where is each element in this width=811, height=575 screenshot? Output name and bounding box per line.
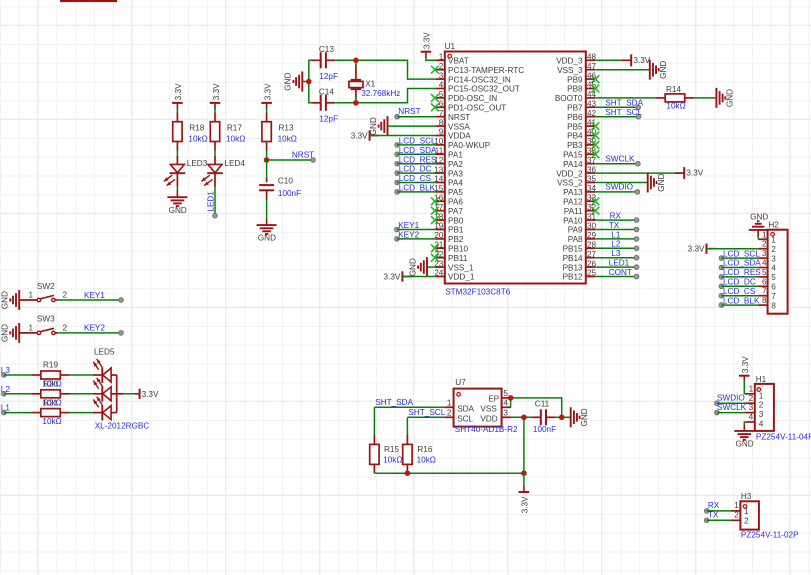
U1 pin 6 PD1-OSC_OUT (435, 106, 444, 108)
svg-text:GND: GND (169, 206, 187, 215)
net label SWDIO at U1 pin34 (595, 191, 637, 193)
U1 pin 3 PC14-OSC32_IN (435, 78, 444, 80)
svg-text:PA11: PA11 (564, 207, 583, 216)
svg-text:H1: H1 (756, 375, 767, 384)
svg-text:10kΩ: 10kΩ (42, 417, 61, 426)
wire 3.3V to R13 (266, 107, 268, 112)
svg-text:XL-2012RGBC: XL-2012RGBC (95, 421, 150, 430)
resistor R20 10k (31, 393, 40, 395)
power 3.3V at U1 pin24 VDD_1 (402, 276, 411, 278)
svg-text:10kΩ: 10kΩ (226, 134, 245, 143)
svg-text:5: 5 (503, 389, 508, 398)
wire R13 to node NRST (266, 150, 268, 160)
net label LCD_DC wire (395, 171, 400, 176)
svg-text:U7: U7 (455, 378, 466, 387)
svg-text:PB8: PB8 (567, 85, 583, 94)
svg-text:SWDIO: SWDIO (717, 393, 745, 402)
svg-text:PA4: PA4 (448, 179, 463, 188)
svg-text:PB13: PB13 (563, 263, 583, 272)
svg-text:3.3V: 3.3V (263, 83, 272, 100)
ground GND left of crystal (303, 81, 309, 83)
svg-text:PB3: PB3 (567, 141, 583, 150)
svg-text:RX: RX (708, 501, 720, 510)
capacitor C10 100nF (266, 178, 268, 183)
svg-text:5: 5 (771, 273, 776, 282)
svg-text:7: 7 (771, 292, 776, 301)
U1 pin 4 PC15-OSC32_OUT (435, 88, 444, 90)
capacitor C11 100nF (531, 416, 540, 418)
svg-text:1: 1 (749, 384, 754, 393)
U7 pin 5 EP (502, 397, 511, 399)
svg-text:4: 4 (759, 420, 764, 429)
svg-text:44: 44 (587, 90, 597, 99)
svg-text:2: 2 (734, 511, 739, 520)
svg-text:100nF: 100nF (278, 189, 301, 198)
net label LCD_SCL wire (395, 143, 400, 148)
svg-text:PA2: PA2 (448, 160, 463, 169)
svg-text:GND: GND (258, 234, 276, 243)
wire LED4 cathode net LED1 (214, 173, 216, 186)
wire left vertical C13-C14 (309, 60, 312, 103)
svg-text:27: 27 (587, 250, 597, 259)
svg-text:PA12: PA12 (563, 198, 583, 207)
svg-text:VDD_1: VDD_1 (448, 273, 475, 282)
svg-text:47: 47 (587, 62, 597, 71)
svg-text:4: 4 (503, 399, 508, 408)
svg-text:GND: GND (284, 72, 293, 90)
svg-text:TX: TX (609, 221, 620, 230)
svg-text:10kΩ: 10kΩ (666, 102, 685, 111)
switch SW3 (19, 332, 37, 334)
LED element L3 of LED5 (93, 374, 102, 376)
connector H2 body (768, 230, 788, 314)
svg-text:LCD_SCL: LCD_SCL (723, 249, 760, 258)
svg-text:LCD_BLK: LCD_BLK (723, 296, 760, 305)
svg-text:VDD_2: VDD_2 (556, 169, 583, 178)
H1 pin 2 (745, 402, 754, 404)
U1 pin 23 VSS_1 (435, 266, 444, 268)
U1 pin 18 PB0 (435, 219, 444, 221)
H2 pin 6 (758, 285, 767, 287)
net label L1 at U1 pin29 (595, 238, 636, 240)
svg-text:2: 2 (63, 323, 68, 332)
svg-text:28: 28 (587, 241, 597, 250)
svg-text:PB2: PB2 (448, 235, 464, 244)
H2 pin-1 marker ring (771, 232, 775, 236)
U1 pin 46 PB9 (586, 78, 595, 80)
svg-text:LED1: LED1 (206, 191, 215, 212)
svg-text:KEY1: KEY1 (84, 291, 105, 300)
svg-text:PC14-OSC32_IN: PC14-OSC32_IN (448, 75, 511, 84)
U1 pin 26 PB13 (586, 266, 595, 268)
wire L2 to resistor (4, 393, 32, 395)
ground GND at U1 pin47 VSS_3 (595, 69, 650, 71)
svg-text:RX: RX (610, 212, 622, 221)
svg-text:C10: C10 (278, 176, 293, 185)
capacitor C13 (311, 59, 320, 61)
crystal X1 32.768kHz (355, 65, 357, 80)
LED element L1 of LED5 (93, 412, 102, 414)
U7 pin 4 VSS (502, 406, 511, 408)
net label KEY1 at U1 pin19 (395, 227, 400, 232)
H3 pin-1 marker ring (743, 505, 747, 509)
svg-text:VSSA: VSSA (448, 122, 470, 131)
wire GND to pin8 (388, 125, 436, 127)
svg-text:KEY1: KEY1 (398, 221, 419, 230)
svg-text:GND: GND (750, 213, 768, 222)
svg-text:SHT_SCL: SHT_SCL (605, 108, 642, 117)
svg-text:LCD_RES: LCD_RES (399, 155, 437, 164)
svg-text:3.3V: 3.3V (423, 32, 432, 49)
svg-text:PA1: PA1 (448, 151, 463, 160)
net label SHT_SDA at U1 pin43 (595, 106, 638, 108)
svg-text:3.3V: 3.3V (521, 496, 530, 513)
net label LCD_BLK wire (395, 190, 400, 195)
svg-text:LED3: LED3 (187, 159, 208, 168)
svg-text:20: 20 (434, 231, 444, 240)
svg-text:2: 2 (762, 240, 767, 249)
svg-text:4: 4 (762, 259, 767, 268)
net label L3 at U1 pin27 (595, 257, 636, 259)
resistor R16 10k pullup (406, 417, 408, 435)
svg-text:SWDIO: SWDIO (605, 183, 633, 192)
svg-text:LED1: LED1 (609, 259, 630, 268)
wire resistor to LED L1 (70, 412, 95, 414)
svg-text:25: 25 (587, 269, 597, 278)
svg-text:10kΩ: 10kΩ (383, 455, 402, 464)
svg-text:3.3V: 3.3V (174, 83, 183, 100)
wire pullup bottoms to 3.3V node (374, 472, 524, 474)
node junction crystal top (353, 58, 359, 64)
U7 pin 1 SDA (444, 406, 453, 408)
svg-text:R16: R16 (417, 445, 432, 454)
net label L2 at U1 pin28 (595, 247, 636, 249)
svg-text:VSS: VSS (480, 404, 497, 413)
svg-text:PB7: PB7 (567, 104, 583, 113)
svg-text:43: 43 (587, 100, 597, 109)
wire crystal bottom stub (355, 96, 357, 103)
U1 pin 40 PB4 (586, 135, 595, 137)
svg-text:LCD_DC: LCD_DC (399, 165, 432, 174)
svg-text:34: 34 (587, 184, 597, 193)
svg-text:3.3V: 3.3V (384, 272, 401, 281)
net label RX at U1 pin31 (595, 219, 636, 221)
svg-text:H2: H2 (768, 220, 779, 229)
svg-text:SWCLK: SWCLK (717, 403, 747, 412)
U1 pin 5 PD0-OSC_IN (435, 97, 444, 99)
svg-text:2: 2 (744, 516, 749, 525)
wire L3 to resistor (4, 374, 32, 376)
svg-text:3: 3 (762, 249, 767, 258)
LED LED4 (214, 156, 216, 164)
svg-text:SHT40-AD1B-R2: SHT40-AD1B-R2 (455, 425, 518, 434)
node junction 3.3V branch (521, 470, 527, 476)
svg-text:4: 4 (771, 264, 776, 273)
svg-text:LCD_SCL: LCD_SCL (399, 137, 436, 146)
net label LED1 at U1 pin26 (595, 266, 636, 268)
svg-text:3: 3 (771, 254, 776, 263)
svg-text:X1: X1 (365, 79, 375, 88)
svg-text:2: 2 (439, 62, 444, 71)
svg-text:13: 13 (434, 165, 444, 174)
svg-text:LCD_CS: LCD_CS (723, 287, 756, 296)
svg-text:LCD_RES: LCD_RES (723, 268, 761, 277)
H1 pin 3 (745, 412, 754, 414)
svg-text:PB9: PB9 (567, 75, 583, 84)
node junction C11 right (559, 415, 565, 421)
svg-text:R15: R15 (384, 445, 399, 454)
svg-text:KEY2: KEY2 (84, 324, 105, 333)
net label LCD_RES at H2 pin5 (719, 275, 724, 280)
wire 3.3V to H1 pin1 (744, 381, 745, 394)
svg-text:29: 29 (587, 231, 597, 240)
capacitor C14 (311, 102, 320, 104)
U1 pin 44 BOOT0 (586, 97, 595, 99)
svg-text:7: 7 (762, 287, 767, 296)
svg-text:6: 6 (439, 100, 444, 109)
wire VSS up to EP node (510, 398, 512, 407)
svg-text:NRST: NRST (398, 107, 420, 116)
svg-text:R14: R14 (666, 85, 681, 94)
ground GND at U1 pin35 VSS_2 (595, 182, 648, 184)
wire L1 to resistor (4, 412, 32, 414)
net label LCD_CS wire (395, 180, 400, 185)
svg-text:LED4: LED4 (224, 159, 245, 168)
svg-text:GND: GND (580, 408, 589, 426)
H3 pin 1 (731, 510, 740, 512)
ground GND below H1 (743, 425, 745, 431)
svg-text:PA7: PA7 (448, 207, 463, 216)
svg-text:NRST: NRST (448, 113, 470, 122)
U7 pin-1 marker ring (457, 393, 461, 397)
wire U7 EP/VSS to GND net (511, 398, 562, 417)
svg-text:3.3V: 3.3V (741, 356, 750, 373)
node junction NRST (264, 157, 270, 163)
svg-text:VSS_2: VSS_2 (557, 179, 583, 188)
power 3.3V above R18 (172, 102, 183, 104)
svg-text:PB4: PB4 (567, 132, 583, 141)
svg-text:9: 9 (439, 128, 444, 137)
svg-text:10kΩ: 10kΩ (278, 134, 297, 143)
svg-text:PA9: PA9 (568, 226, 583, 235)
power 3.3V at U1 pin9 VDDA (370, 135, 379, 137)
svg-text:PA14: PA14 (563, 160, 583, 169)
power 3.3V right of LED5 (135, 393, 140, 395)
power flag 3.3V above U1 pin 1 (421, 51, 432, 53)
svg-text:PB11: PB11 (448, 254, 468, 263)
wire C13 to crystal top to U1 pin3 (335, 60, 435, 79)
U1 pin 28 PB15 (586, 247, 595, 249)
svg-text:L1: L1 (611, 230, 621, 239)
svg-text:SDA: SDA (457, 404, 474, 413)
svg-text:1: 1 (447, 399, 452, 408)
wire R17 to LED4 (214, 150, 216, 158)
U1 pin 19 PB1 (435, 229, 444, 231)
svg-text:C11: C11 (535, 400, 550, 409)
svg-text:12pF: 12pF (319, 114, 338, 123)
U1 pin 14 PA4 (435, 182, 444, 184)
U1 pin 15 PA5 (435, 191, 444, 193)
svg-text:10kΩ: 10kΩ (417, 455, 436, 464)
svg-text:PA15: PA15 (563, 151, 583, 160)
svg-text:3.3V: 3.3V (351, 131, 368, 140)
svg-text:VSS_1: VSS_1 (448, 263, 474, 272)
svg-text:3: 3 (503, 409, 508, 418)
net label LCD_SDA wire (395, 152, 400, 157)
svg-text:LCD_SDA: LCD_SDA (399, 146, 437, 155)
svg-text:C14: C14 (319, 87, 334, 96)
svg-text:1: 1 (771, 236, 776, 245)
net label SHT_SCL at U1 pin42 (595, 116, 638, 118)
power 3.3V at H2 pin2 (707, 248, 716, 250)
U1 pin 7 NRST (435, 116, 444, 118)
H2 pin 1 (758, 238, 767, 240)
node junction GND tap (306, 79, 312, 85)
U1 pin 12 PA2 (435, 163, 444, 165)
svg-text:3: 3 (439, 71, 444, 80)
U1 pin 31 PA10 (586, 219, 595, 221)
U1 pin 25 PB12 (586, 276, 595, 278)
U1 pin 1 VBAT (435, 59, 444, 61)
svg-text:1: 1 (439, 53, 444, 62)
svg-text:STM32F103C8T6: STM32F103C8T6 (445, 287, 511, 296)
svg-text:KEY2: KEY2 (398, 231, 419, 240)
svg-text:35: 35 (587, 175, 597, 184)
svg-text:VDD: VDD (480, 414, 497, 423)
svg-text:GND: GND (735, 440, 753, 449)
H2 pin 5 (758, 276, 767, 278)
U1 pin 11 PA1 (435, 153, 444, 155)
H2 pin 3 (758, 257, 767, 259)
node junction crystal bottom (353, 100, 359, 106)
U1 pin 13 PA3 (435, 172, 444, 174)
ground GND above H2 pin1 (757, 232, 759, 240)
svg-text:SHT_SDA: SHT_SDA (375, 398, 413, 407)
U1 pin 35 VSS_2 (586, 182, 595, 184)
svg-text:LCD_BLK: LCD_BLK (399, 184, 436, 193)
wire VDD node down (523, 417, 525, 473)
svg-text:37: 37 (587, 156, 597, 165)
H2 pin 4 (758, 267, 767, 269)
U1 pin 33 PA12 (586, 200, 595, 202)
power 3.3V at U1 pin48 VDD_3 (595, 59, 631, 61)
svg-text:GND: GND (657, 173, 666, 191)
svg-text:PA6: PA6 (448, 198, 463, 207)
svg-text:15: 15 (434, 184, 444, 193)
U1 pin 47 VSS_3 (586, 69, 595, 71)
wire R18 to LED3 (176, 150, 178, 158)
net label TX at U1 pin30 (595, 229, 636, 231)
U1 pin 48 VDD_3 (586, 59, 595, 61)
net label NRST wire right (267, 159, 313, 161)
svg-text:PB1: PB1 (448, 226, 464, 235)
net label LCD_SCL at H2 pin3 (719, 256, 724, 261)
svg-text:PA0-WKUP: PA0-WKUP (448, 141, 491, 150)
svg-text:PA3: PA3 (448, 169, 463, 178)
svg-text:SWCLK: SWCLK (605, 154, 635, 163)
svg-text:GND: GND (1, 291, 10, 309)
U1 pin 45 PB8 (586, 88, 595, 90)
svg-text:10: 10 (434, 137, 444, 146)
U1 pin 39 PB3 (586, 144, 595, 146)
H3 pin 2 (731, 519, 740, 521)
svg-text:PC13-TAMPER-RTC: PC13-TAMPER-RTC (448, 66, 524, 75)
svg-text:1: 1 (759, 391, 764, 400)
svg-text:C13: C13 (319, 45, 334, 54)
svg-text:42: 42 (587, 109, 597, 118)
svg-text:U1: U1 (445, 42, 456, 51)
net label SWDIO at H1 pin2 (715, 401, 720, 406)
svg-text:TX: TX (708, 510, 719, 519)
ground GND right of R14 (715, 88, 717, 108)
U1 pin 16 PA6 (435, 200, 444, 202)
svg-text:14: 14 (434, 175, 444, 184)
svg-text:SCL: SCL (457, 414, 473, 423)
U1 pin 38 PA15 (586, 153, 595, 155)
net label SWCLK at H1 pin3 (715, 410, 720, 415)
U1 pin 17 PA7 (435, 210, 444, 212)
switch SW2 (19, 299, 37, 301)
U1 pin-1 marker ring (448, 54, 452, 58)
svg-text:2: 2 (771, 245, 776, 254)
LED element L2 of LED5 (93, 393, 102, 395)
svg-text:NRST: NRST (292, 150, 314, 159)
svg-text:3.3V: 3.3V (142, 390, 159, 399)
svg-text:1: 1 (29, 323, 34, 332)
wire 3.3V to pin9 (370, 135, 436, 137)
svg-text:LCD_DC: LCD_DC (723, 278, 756, 287)
svg-text:VDD_3: VDD_3 (556, 57, 583, 66)
svg-text:26: 26 (587, 259, 597, 268)
LED5 common anode bar (116, 375, 118, 413)
svg-text:2: 2 (447, 409, 452, 418)
wire C14 to crystal bottom to U1 pin4 (335, 89, 435, 103)
svg-text:PB15: PB15 (563, 245, 583, 254)
svg-text:24: 24 (434, 269, 444, 278)
svg-text:GND: GND (659, 61, 668, 79)
wire SW3 to net KEY2 (58, 332, 121, 334)
svg-text:SHT_SCL: SHT_SCL (408, 408, 445, 417)
net label RX at H3 pin1 (704, 509, 709, 514)
svg-text:3.3V: 3.3V (688, 245, 705, 254)
svg-text:LED5: LED5 (94, 347, 115, 356)
net label KEY2 at U1 pin20 (395, 237, 400, 242)
svg-text:1: 1 (762, 230, 767, 239)
svg-text:10kΩ: 10kΩ (188, 134, 207, 143)
wire SHT_SCL from R16 to U7 pin2 (407, 416, 444, 418)
svg-text:32.768kHz: 32.768kHz (361, 89, 400, 98)
resistor R13 10k (266, 112, 268, 121)
U1 pin 32 PA11 (586, 210, 595, 212)
svg-text:PB0: PB0 (448, 216, 464, 225)
wire 3.3V to U1 pin1 (426, 58, 436, 60)
svg-text:PA10: PA10 (563, 216, 583, 225)
svg-text:30: 30 (587, 222, 597, 231)
U1 pin 21 PB10 (435, 247, 444, 249)
svg-text:SHT_SDA: SHT_SDA (605, 99, 643, 108)
svg-text:VSS_3: VSS_3 (557, 66, 583, 75)
svg-text:PB6: PB6 (567, 113, 583, 122)
ground GND below C10 (266, 219, 268, 225)
svg-text:R21: R21 (43, 398, 58, 407)
svg-text:L2: L2 (611, 240, 621, 249)
U1 pin 27 PB14 (586, 257, 595, 259)
svg-text:PB5: PB5 (567, 122, 583, 131)
U7 pin 2 SCL (444, 416, 453, 418)
svg-text:VDDA: VDDA (448, 132, 471, 141)
U7 pin 3 VDD (502, 416, 511, 418)
connector H3 body (740, 501, 759, 529)
